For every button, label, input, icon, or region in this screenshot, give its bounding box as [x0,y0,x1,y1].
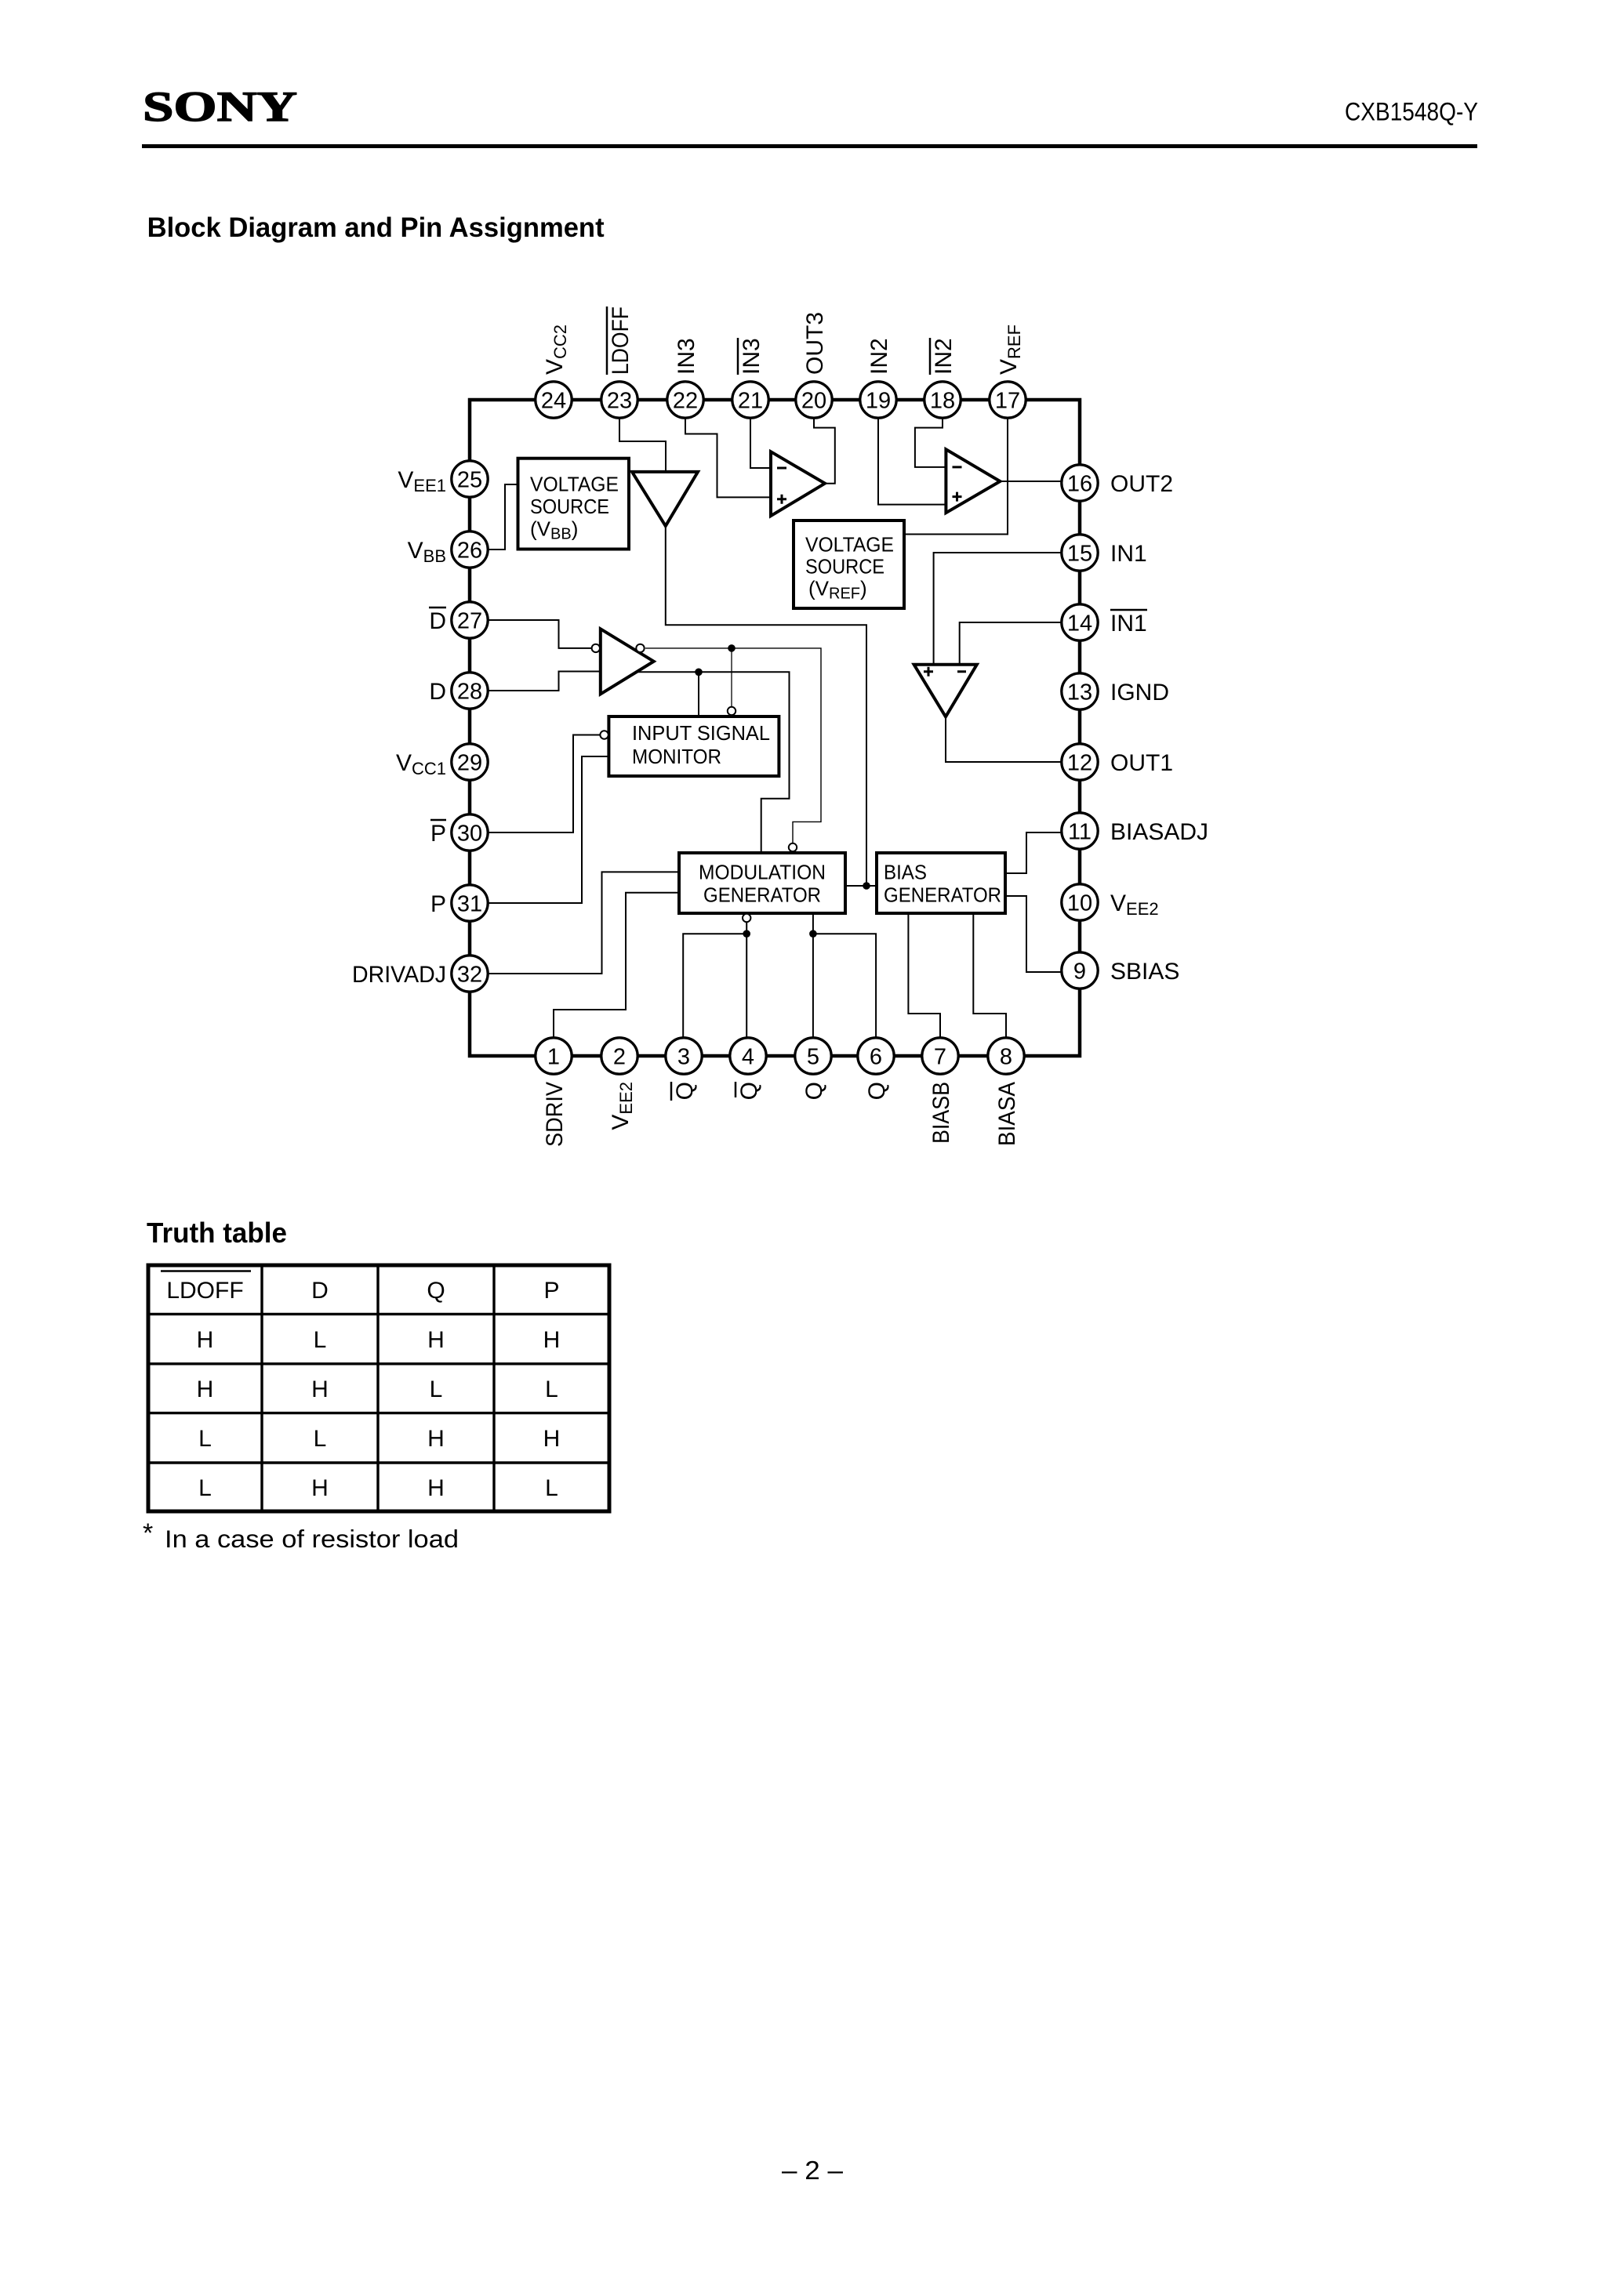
VBB buffer amplifier triangle [632,472,698,526]
svg-text:8: 8 [1000,1045,1012,1070]
wire pin 15 IN1 to comparator U4 + input [934,553,1062,665]
wire pin 31 P to input signal monitor [488,756,609,903]
svg-text:L: L [198,1475,212,1501]
wire pin 32 DRIVADJ to modulation generator [488,872,680,974]
wire buffer U5 Q output (upper) [645,648,821,843]
svg-text:*: * [143,1518,153,1548]
svg-text:IN2: IN2 [866,338,892,375]
junction J5 [809,930,817,938]
svg-text:26: 26 [457,539,482,564]
svg-text:27: 27 [457,609,482,634]
pin 10 [1062,884,1098,920]
comparator U4 polarity marks [924,667,966,676]
pin 25 [452,461,488,497]
wire junction J2 to input signal monitor top [698,672,699,716]
pin 4 [730,1038,766,1074]
svg-text:H: H [543,1327,561,1353]
pin 9 [1062,952,1098,988]
wire pin 17 VREF to voltage source (VREF) box [904,418,1008,535]
pin 17 [990,382,1026,418]
svg-text:D: D [311,1278,329,1304]
input signal monitor box [608,716,779,776]
svg-text:13: 13 [1067,680,1092,705]
svg-text:VOLTAGE: VOLTAGE [805,533,894,557]
label Q pin 5 [801,1082,827,1100]
label VCC2 pin 24 [542,325,570,375]
pin 7 [922,1038,958,1074]
wire pin 22 IN3 to op-amp U2 + input [685,418,771,497]
svg-text:IN3: IN3 [739,338,765,375]
svg-text:6: 6 [870,1045,882,1070]
pin 24 [536,382,572,418]
svg-text:H: H [543,1426,561,1452]
pin 26 [452,531,488,568]
svg-text:1: 1 [547,1045,560,1070]
voltage source (VREF) box [794,520,904,608]
wire bias generator to pin 7 BIASB [908,913,940,1038]
pin 1 [536,1038,572,1074]
truth table column lines [262,1265,494,1511]
pin 12 [1062,744,1098,780]
svg-text:OUT3: OUT3 [802,312,828,375]
svg-text:H: H [197,1327,214,1353]
pin 29 [452,744,488,780]
junction J2 [695,669,703,676]
pin 2 [601,1038,637,1074]
label OUT3 pin 20 [802,312,828,375]
wire VBB buffer output to bias net junction [666,526,866,886]
svg-text:IN3: IN3 [674,338,699,375]
svg-text:H: H [427,1327,445,1353]
label VEE2 pin 2 [608,1082,636,1130]
svg-text:IN2: IN2 [931,338,957,375]
svg-text:Q: Q [864,1082,890,1100]
svg-text:DRIVADJ: DRIVADJ [352,962,446,988]
pin 31 [452,885,488,921]
svg-text:H: H [311,1377,329,1402]
svg-text:10: 10 [1067,891,1092,916]
svg-text:5: 5 [807,1045,819,1070]
pin 20 [796,382,832,418]
pin 22 [667,382,703,418]
label Qbar pin 4 [736,1082,762,1100]
svg-text:Truth table: Truth table [147,1217,287,1249]
svg-text:25: 25 [457,468,482,493]
svg-text:21: 21 [738,389,763,414]
wire op-amp U3 output to pin 16 OUT2 [1000,481,1062,482]
wire modulation generator bottom to junction J5 [812,913,814,934]
pin 14 [1062,604,1098,640]
wire pin 14 IN1bar to comparator U4 - input [960,622,1062,665]
svg-text:30: 30 [457,822,482,847]
label IN3bar pin 21 [738,338,765,375]
voltage source (VBB) box [518,459,630,550]
bubble: buffer U5 inverting input [592,644,600,652]
pin 23 [601,382,637,418]
pin 27 [452,602,488,638]
svg-text:OUT2: OUT2 [1110,471,1173,497]
truth table outer border [148,1265,609,1511]
label SDRIV pin 1 [542,1082,568,1147]
svg-text:16: 16 [1067,472,1092,497]
junction J1 [728,644,736,652]
wire pin 21 IN3bar to op-amp U2 - input [750,418,771,468]
svg-text:P: P [430,821,446,847]
svg-text:L: L [430,1377,443,1402]
pin 18 [924,382,961,418]
svg-text:– 2 –: – 2 – [782,2156,844,2185]
svg-text:L: L [314,1426,327,1452]
op-amp U3 polarity marks [953,467,962,502]
svg-text:15: 15 [1067,542,1092,567]
label IN2bar pin 18 [930,338,957,375]
bubble: modulation generator bottom output [743,914,750,922]
pin 13 [1062,673,1098,709]
svg-text:22: 22 [673,389,698,414]
wire buffer U5 output (lower) [627,672,790,853]
svg-text:11: 11 [1068,820,1092,845]
svg-text:Block Diagram and Pin Assignme: Block Diagram and Pin Assignment [147,212,605,243]
modulation generator box [679,853,845,913]
wire comparator U4 output to pin 12 OUT1 [946,716,1062,762]
svg-text:GENERATOR: GENERATOR [884,883,1001,907]
svg-text:BIASADJ: BIASADJ [1110,819,1208,845]
svg-text:SOURCE: SOURCE [805,555,884,579]
svg-text:29: 29 [457,751,482,776]
label LDOFF pin 23 [607,306,634,375]
svg-text:OUT1: OUT1 [1110,750,1173,776]
wire junction J4 to pin 3 Qbar [683,934,746,1038]
label BIASB pin 7 [928,1082,954,1144]
svg-text:P: P [430,891,446,917]
pin 6 [858,1038,894,1074]
svg-text:H: H [427,1426,445,1452]
pin 3 [666,1038,702,1074]
wire pin 27 Dbar to buffer U5 inverting input bubble [488,620,592,648]
svg-text:CXB1548Q-Y: CXB1548Q-Y [1345,98,1478,126]
svg-text:SBIAS: SBIAS [1110,959,1179,985]
svg-text:INPUT SIGNAL: INPUT SIGNAL [632,721,770,745]
bubble: input signal monitor left input [600,731,608,738]
wire op-amp U2 output to pin 20 OUT3 [814,418,835,484]
svg-text:L: L [545,1475,558,1501]
svg-text:LDOFF: LDOFF [166,1278,243,1304]
pin 15 [1062,535,1098,571]
label VREF pin 17 [996,325,1024,375]
svg-text:H: H [311,1475,329,1501]
svg-text:BIAS: BIAS [884,861,927,884]
pin 21 [732,382,768,418]
pin 30 [452,814,488,851]
svg-text:18: 18 [930,389,955,414]
svg-text:L: L [314,1327,327,1353]
svg-text:SDRIV: SDRIV [542,1082,568,1147]
svg-text:24: 24 [541,389,566,414]
pin 28 [452,673,488,709]
svg-text:VOLTAGE: VOLTAGE [530,473,619,496]
pin 5 [795,1038,831,1074]
wire modulation generator to bias generator [845,885,877,887]
op-amp U3 (IN2/OUT2) [946,449,1000,513]
svg-text:MODULATION: MODULATION [699,861,826,884]
svg-text:BIASA: BIASA [994,1082,1020,1146]
svg-text:32: 32 [457,963,482,988]
junction J4 [743,930,750,938]
svg-text:H: H [197,1377,214,1402]
bubble: buffer U5 inverted output [636,644,644,652]
svg-text:2: 2 [613,1045,626,1070]
svg-text:SONY: SONY [143,83,297,130]
svg-text:9: 9 [1073,959,1086,985]
wire junction J5 to pin 6 Q [813,934,876,1038]
svg-text:28: 28 [457,680,482,705]
wire pin 11 BIASADJ to bias generator [1005,832,1062,873]
svg-text:Q: Q [672,1082,698,1100]
comparator U4 (IN1/OUT1) [914,665,977,717]
wire pin 19 IN2 to op-amp U3 + input [878,418,946,505]
svg-text:17: 17 [995,389,1020,414]
svg-text:SOURCE: SOURCE [530,495,609,518]
buffer U5 (D input) [601,629,654,694]
junction J3 [863,882,870,890]
svg-text:D: D [429,679,446,705]
wire pin 28 D to buffer U5 input [488,672,601,691]
bias generator box [877,853,1005,913]
label BIASA pin 8 [994,1082,1020,1146]
wire junction J4 to pin 4 Qbar [746,934,747,1038]
pin 32 [452,956,488,992]
bubble: input signal monitor top input [728,707,736,715]
pin 19 [860,382,896,418]
label IN2 pin 19 [866,338,892,375]
svg-text:Q: Q [736,1082,762,1100]
label IN3 pin 22 [674,338,699,375]
op-amp U2 polarity marks [777,468,786,504]
svg-text:12: 12 [1067,751,1092,776]
svg-text:IN1: IN1 [1110,611,1147,637]
label Qbar pin 3 [671,1082,698,1101]
svg-text:20: 20 [801,389,826,414]
wire junction J5 to pin 5 Q [812,934,814,1038]
svg-text:19: 19 [866,389,891,414]
wire bias generator to pin 8 BIASA [973,913,1006,1038]
svg-text:23: 23 [607,389,632,414]
svg-text:31: 31 [457,892,482,917]
svg-text:In a case of resistor load: In a case of resistor load [165,1525,459,1553]
op-amp U2 (IN3/OUT3) [771,452,825,516]
svg-text:BIASB: BIASB [928,1082,954,1144]
truth table row lines [148,1314,609,1463]
svg-text:H: H [427,1475,445,1501]
wire pin 23 LDOFF to VBB buffer input [619,418,666,470]
svg-text:14: 14 [1067,611,1092,637]
label Q pin 6 [864,1082,890,1100]
svg-text:L: L [545,1377,558,1402]
svg-text:L: L [198,1426,212,1452]
svg-text:MONITOR: MONITOR [632,745,721,768]
svg-text:Q: Q [801,1082,827,1100]
header rule [142,144,1477,148]
wire pin 1 SDRIV to modulation generator [554,893,679,1038]
svg-text:LDOFF: LDOFF [608,306,634,375]
pin 11 [1062,813,1098,849]
wire pin 26 VBB to voltage source (VBB) box [488,484,518,550]
svg-text:Q: Q [427,1278,445,1304]
svg-text:7: 7 [934,1045,946,1070]
svg-text:IGND: IGND [1110,680,1169,705]
svg-text:IN1: IN1 [1110,541,1147,567]
svg-text:3: 3 [677,1045,690,1070]
bubble: modulation generator top input [789,843,797,851]
IC package outline [470,400,1080,1056]
svg-text:D: D [429,608,446,634]
wire junction J1 to input signal monitor bubble [731,648,732,707]
wire bias generator to pin 9 SBIAS [1005,896,1062,972]
pin 8 [988,1038,1024,1074]
svg-text:P: P [543,1278,559,1304]
wire pin 30 Pbar to input signal monitor bubble [488,735,601,833]
svg-text:4: 4 [742,1045,754,1070]
svg-text:GENERATOR: GENERATOR [703,883,821,907]
wire modulation generator bottom to junction J4 [746,922,747,934]
wire pin 18 IN2bar to op-amp U3 - input [915,418,946,467]
pin 16 [1062,465,1098,501]
